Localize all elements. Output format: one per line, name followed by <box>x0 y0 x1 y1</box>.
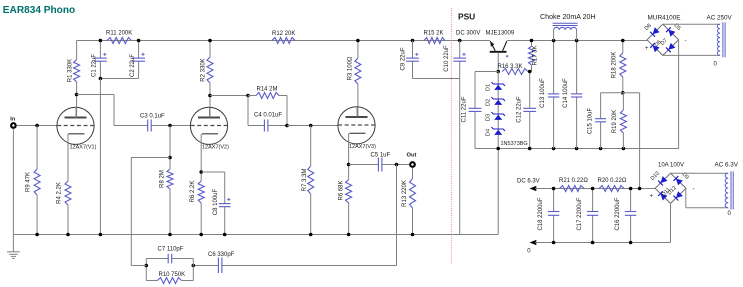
svg-text:In: In <box>10 117 16 123</box>
svg-text:D12: D12 <box>667 185 678 196</box>
svg-text:C14 100uF: C14 100uF <box>563 78 569 108</box>
svg-text:C7 110pF: C7 110pF <box>158 247 184 253</box>
junction R18 / top rail <box>621 39 625 43</box>
capacitor C5 1uF <box>377 158 379 172</box>
wire C8 branch <box>201 172 225 235</box>
node C7/R10 right <box>192 264 196 268</box>
svg-text:D1: D1 <box>485 84 491 91</box>
wire cathode to C5 <box>349 164 379 166</box>
junction feedback tap <box>395 163 399 167</box>
wire input to V1 grid <box>17 125 57 127</box>
wire C3 to V2 grid <box>151 125 190 127</box>
wire C4 right branch <box>268 96 287 126</box>
svg-text:C1 22uF: C1 22uF <box>92 54 98 77</box>
node C3 / R8 / V2 grid <box>168 124 172 128</box>
resistor R21 0.22&#937; <box>560 186 585 192</box>
capacitor C1 22uF <box>94 57 107 59</box>
wire PSU 0V rail <box>475 148 679 150</box>
resistor R8 2M <box>167 169 173 189</box>
resistor R1 330K <box>74 60 80 83</box>
svg-text:R4 2.2K: R4 2.2K <box>57 182 63 204</box>
triode V2 12AX7 <box>190 107 229 150</box>
svg-text:+: + <box>650 194 654 200</box>
junction C13 / 0V rail <box>552 147 556 151</box>
wire C10 leads <box>459 41 461 79</box>
resistor R15 2K <box>424 38 445 44</box>
wire R16 right to R17 <box>528 71 532 73</box>
wire C15 branch <box>601 93 623 149</box>
capacitor C9 22uF <box>406 57 419 59</box>
wire V2 cathode down <box>200 134 202 235</box>
wire R1 top corner <box>76 41 78 60</box>
junction R8 / ground bus <box>168 233 172 237</box>
wire V2 plate to R14 <box>210 95 248 97</box>
ground symbol <box>7 235 20 259</box>
wire C6 to C7/R10 loop <box>193 265 218 267</box>
wire C17 leads <box>592 189 594 243</box>
wire top B+ rail right section (collector to bridge) <box>507 40 647 42</box>
capacitor C8 100uF <box>219 203 231 205</box>
svg-text:R13 220K: R13 220K <box>402 180 408 207</box>
svg-text:-: - <box>685 39 687 45</box>
junction C16 top <box>629 187 633 191</box>
junction R17 / top rail <box>530 39 534 43</box>
junction zener / 0V rail <box>496 147 500 151</box>
wire R17 leads <box>531 41 533 72</box>
wire C10 return to ground bus <box>459 79 461 235</box>
junction R4 / ground bus <box>66 233 70 237</box>
output terminal Out <box>410 162 415 167</box>
svg-text:D3: D3 <box>485 114 491 121</box>
wire C18 leads <box>553 189 555 243</box>
junction heater elevation <box>638 187 642 191</box>
node R14/C4 right <box>285 124 289 128</box>
resistor R9 47K <box>34 169 40 195</box>
svg-text:R12 20K: R12 20K <box>272 31 295 37</box>
svg-text:Out: Out <box>407 152 417 158</box>
svg-text:0: 0 <box>714 62 718 68</box>
svg-text:R21 0.22Ω: R21 0.22Ω <box>559 178 588 184</box>
resistor R16 3.3K <box>502 69 528 75</box>
svg-text:D2: D2 <box>485 99 491 106</box>
resistor R6 68K <box>346 180 352 204</box>
junction R3 / top rail <box>356 39 360 43</box>
junction C2 / top rail <box>137 39 141 43</box>
wire C5 to Out <box>382 164 410 166</box>
wire R3 leads <box>357 41 359 118</box>
resistor R13 220K <box>410 179 416 209</box>
junction C9 / top rail <box>411 39 415 43</box>
junction C14 / top rail <box>575 39 579 43</box>
svg-text:C18 2200uF: C18 2200uF <box>538 197 544 230</box>
junction R19 / 0V rail <box>622 147 626 151</box>
wire R2 leads <box>209 41 211 118</box>
svg-text:R10 750K: R10 750K <box>159 272 186 278</box>
wire C7/R10 loop frame <box>146 259 193 281</box>
svg-text:R3 100Ω: R3 100Ω <box>348 56 354 80</box>
wire loop to riser <box>131 265 146 267</box>
wire C16 leads <box>630 189 632 243</box>
capacitor C10 22uF <box>453 57 466 59</box>
svg-text:R17 3K: R17 3K <box>533 45 539 65</box>
arrow heater + output <box>530 186 537 191</box>
capacitor C6 330pF <box>217 258 219 274</box>
capacitor C4 0.01uF <box>263 120 265 132</box>
junction R6 / ground bus <box>199 233 203 237</box>
svg-text:0: 0 <box>527 249 531 255</box>
junction C14 / 0V rail <box>575 147 579 151</box>
junction R7 / ground bus <box>309 233 313 237</box>
wire C9 leads <box>412 41 414 79</box>
svg-text:12AX7(V1): 12AX7(V1) <box>70 145 97 151</box>
svg-text:R8 2M: R8 2M <box>160 170 166 188</box>
svg-text:MUR4100E: MUR4100E <box>648 15 681 22</box>
transformer T1 AC 250V winding <box>707 15 733 68</box>
wire bridge2 minus down <box>670 203 672 242</box>
svg-text:PSU: PSU <box>458 11 475 21</box>
junction C12 top <box>528 70 532 74</box>
choke 20mA 20H <box>540 13 596 41</box>
svg-text:MJE13009: MJE13009 <box>486 31 515 37</box>
wire bridge2 AC top <box>671 172 729 174</box>
svg-text:R6 68K: R6 68K <box>339 180 345 200</box>
node V1 plate <box>75 93 79 97</box>
input terminal In <box>11 123 16 128</box>
arrow heater - output <box>530 240 537 245</box>
capacitor C3 0.1uF <box>147 120 149 132</box>
wire V3 cathode down <box>348 133 350 234</box>
junction C15 / 0V rail <box>599 147 603 151</box>
junction R2 / top rail <box>208 39 212 43</box>
zener D2 <box>485 97 505 106</box>
wire top B+ rail left section <box>77 40 490 42</box>
svg-text:DC 6.3V: DC 6.3V <box>517 178 540 184</box>
svg-text:R6 2.2K: R6 2.2K <box>190 181 196 203</box>
svg-text:R2 330K: R2 330K <box>201 58 207 81</box>
zener D3 <box>485 112 505 121</box>
svg-text:C11 22uF: C11 22uF <box>461 96 467 122</box>
wire base lead <box>497 53 499 72</box>
svg-text:R7 3.3M: R7 3.3M <box>302 169 308 192</box>
wire C11 top link <box>475 71 498 73</box>
wire feedback riser <box>131 158 170 266</box>
svg-text:EAR834 Phono: EAR834 Phono <box>3 5 75 16</box>
svg-text:AC 250V: AC 250V <box>707 15 733 22</box>
resistor R14 2M <box>256 93 279 99</box>
svg-text:12AX7(V2): 12AX7(V2) <box>202 145 229 151</box>
svg-text:C16 2200uF: C16 2200uF <box>615 197 621 230</box>
capacitor C18 2200uF <box>548 211 559 213</box>
junction C18 top <box>552 187 556 191</box>
capacitor C12 22uF <box>523 107 536 109</box>
wire R7 leads <box>310 126 312 235</box>
svg-text:C5 1uF: C5 1uF <box>371 153 391 159</box>
wire C1 leads <box>99 41 101 79</box>
svg-text:D4: D4 <box>485 129 491 136</box>
triode V1 12AX7 <box>57 107 97 150</box>
junction C12 / 0V rail <box>528 147 532 151</box>
svg-text:10A 100V: 10A 100V <box>658 163 684 169</box>
wire input shield down to ground bus <box>12 129 14 235</box>
capacitor C7 110pF <box>167 254 169 263</box>
node C7/R10 left <box>145 264 149 268</box>
wire R18 leads <box>622 41 624 93</box>
resistor R10 750K <box>158 278 182 284</box>
svg-text:D10: D10 <box>650 171 661 182</box>
wire ground bus <box>13 234 498 236</box>
node V2 plate <box>208 94 212 98</box>
capacitor C13 100uF <box>548 93 559 95</box>
resistor R18 200K <box>620 53 626 77</box>
svg-text:C9 22uF: C9 22uF <box>400 47 406 70</box>
junction C10 / top rail <box>458 39 462 43</box>
svg-text:C17 2200uF: C17 2200uF <box>577 197 583 230</box>
wire V1 plate to C3 <box>77 95 148 126</box>
svg-text:R14 2M: R14 2M <box>257 87 278 93</box>
resistor R2 330K <box>207 57 213 83</box>
resistor R19 20K <box>620 110 626 133</box>
resistor R17 3K <box>529 46 535 65</box>
junction C18 bottom <box>552 241 556 245</box>
resistor R6 2.2K <box>198 181 204 203</box>
junction R8 / feedback <box>168 156 172 160</box>
junction C1 bottom <box>99 77 103 81</box>
wire heater - rail <box>535 242 671 244</box>
capacitor C2 22uF <box>132 57 145 59</box>
transistor Q1 MJE13009 <box>490 41 509 57</box>
svg-text:R19 20K: R19 20K <box>612 110 618 133</box>
svg-text:C15 10uF: C15 10uF <box>588 107 594 134</box>
svg-text:C4 0.01uF: C4 0.01uF <box>254 113 282 119</box>
PSU separator dotted line <box>450 8 452 264</box>
wire C4 left branch <box>248 96 264 126</box>
wire C14 leads <box>576 41 578 149</box>
svg-text:12AX7(V3): 12AX7(V3) <box>349 144 376 150</box>
svg-text:+: + <box>645 46 649 52</box>
wire C2 leads <box>138 41 140 79</box>
junction R13 / ground bus <box>411 233 415 237</box>
resistor R12 20K <box>272 38 295 44</box>
junction input / R9 <box>35 124 39 128</box>
wire R14 leads <box>248 95 287 97</box>
resistor R20 0.22&#937; <box>599 186 624 192</box>
wire R19 leads <box>622 93 625 149</box>
wire R9 leads <box>36 126 38 235</box>
node R14/C4 left <box>246 94 250 98</box>
wire R1 bottom to V1 plate <box>76 82 78 118</box>
svg-text:AC 6.3V: AC 6.3V <box>715 162 739 169</box>
wire feedback bottom run <box>222 265 396 267</box>
svg-text:R1 330K: R1 330K <box>68 59 74 82</box>
resistor R11 200K <box>107 38 132 44</box>
svg-text:C12 22uF: C12 22uF <box>517 96 523 123</box>
svg-text:D8: D8 <box>644 23 653 32</box>
node V3 cathode output tap <box>347 163 351 167</box>
junction C1 return / ground bus <box>99 233 103 237</box>
transformer T2 AC 6.3V winding <box>715 162 739 217</box>
wire R13 leads <box>412 168 414 235</box>
resistor R4 2.2K <box>65 181 71 205</box>
junction C17 top <box>591 187 595 191</box>
resistor R7 3.3M <box>308 166 314 194</box>
svg-text:R20 0.22Ω: R20 0.22Ω <box>598 178 627 184</box>
junction R9 / ground bus <box>35 233 39 237</box>
junction C16 bottom <box>629 241 633 245</box>
node V2 cathode / C8 <box>199 170 203 174</box>
svg-text:R11 200K: R11 200K <box>106 31 132 37</box>
svg-text:Choke 20mA 20H: Choke 20mA 20H <box>540 13 596 21</box>
svg-text:C2 22uF: C2 22uF <box>130 54 136 77</box>
svg-text:C6 330pF: C6 330pF <box>208 252 235 258</box>
junction C13 / top rail <box>552 39 556 43</box>
wire C13 leads <box>553 41 555 149</box>
svg-text:D7: D7 <box>660 38 669 47</box>
node R18/R19/C15 <box>621 91 625 95</box>
svg-text:DC 300V: DC 300V <box>456 31 480 37</box>
wire bridge2 AC bottom <box>686 188 728 207</box>
capacitor C17 2200uF <box>587 211 598 213</box>
wire R8 top leads <box>169 126 171 235</box>
wire C1/C2 return to ground bus <box>99 79 101 235</box>
wire C9-C10 bottom link <box>413 78 460 80</box>
capacitor C15 10uF <box>595 118 606 120</box>
wire bridge1 AC bottom <box>663 54 720 56</box>
svg-text:R18 200K: R18 200K <box>612 52 618 79</box>
capacitor C16 2200uF <box>625 211 636 213</box>
svg-text:R15 2K: R15 2K <box>424 31 444 37</box>
svg-text:-: - <box>693 187 695 193</box>
svg-text:C10 22uF: C10 22uF <box>444 45 450 72</box>
svg-text:C8 100uF: C8 100uF <box>213 188 219 215</box>
junction C1 / top rail <box>99 39 103 43</box>
wire feedback drop from output <box>396 165 398 266</box>
svg-text:C3 0.1uF: C3 0.1uF <box>140 114 165 120</box>
bridge rectifier MUR4100E (D5-D8) <box>647 24 679 55</box>
svg-text:0: 0 <box>728 211 732 217</box>
wire V1 cathode to R4 <box>67 134 69 235</box>
junction C8 / ground bus <box>223 233 227 237</box>
svg-text:1N5373BG: 1N5373BG <box>501 141 528 147</box>
wire zener stack lead <box>497 72 499 149</box>
svg-text:R9 47K: R9 47K <box>26 172 32 192</box>
wire C1-C2 bottom link <box>100 78 138 80</box>
wire C11 leads <box>474 72 476 149</box>
svg-text:R16 3.3K: R16 3.3K <box>498 64 523 70</box>
junction C17 bottom <box>591 241 595 245</box>
wire bridge1 minus to 0V rail <box>678 40 680 149</box>
wire heater elevation <box>623 93 640 189</box>
capacitor C11 22uF <box>469 107 482 109</box>
triode V3 12AX7 <box>338 107 376 150</box>
resistor R3 100&#937; <box>355 58 361 84</box>
wire PSU 0V to ground bus <box>497 149 499 235</box>
junction R7 / V3 grid wire <box>309 124 313 128</box>
capacitor C14 100uF <box>571 93 582 95</box>
junction R6 / ground bus <box>347 233 351 237</box>
wire bridge1 AC top <box>663 23 720 25</box>
wire to V3 grid <box>287 125 338 127</box>
bridge rectifier 10A 100V (D9-D12) <box>655 173 686 203</box>
wire heater + rail <box>535 188 655 190</box>
svg-text:C13 100uF: C13 100uF <box>540 78 546 108</box>
zener D4 <box>485 127 505 136</box>
node base / R16 / zeners <box>496 70 500 74</box>
wire C12 leads <box>529 72 531 149</box>
zener D1 <box>485 82 505 91</box>
